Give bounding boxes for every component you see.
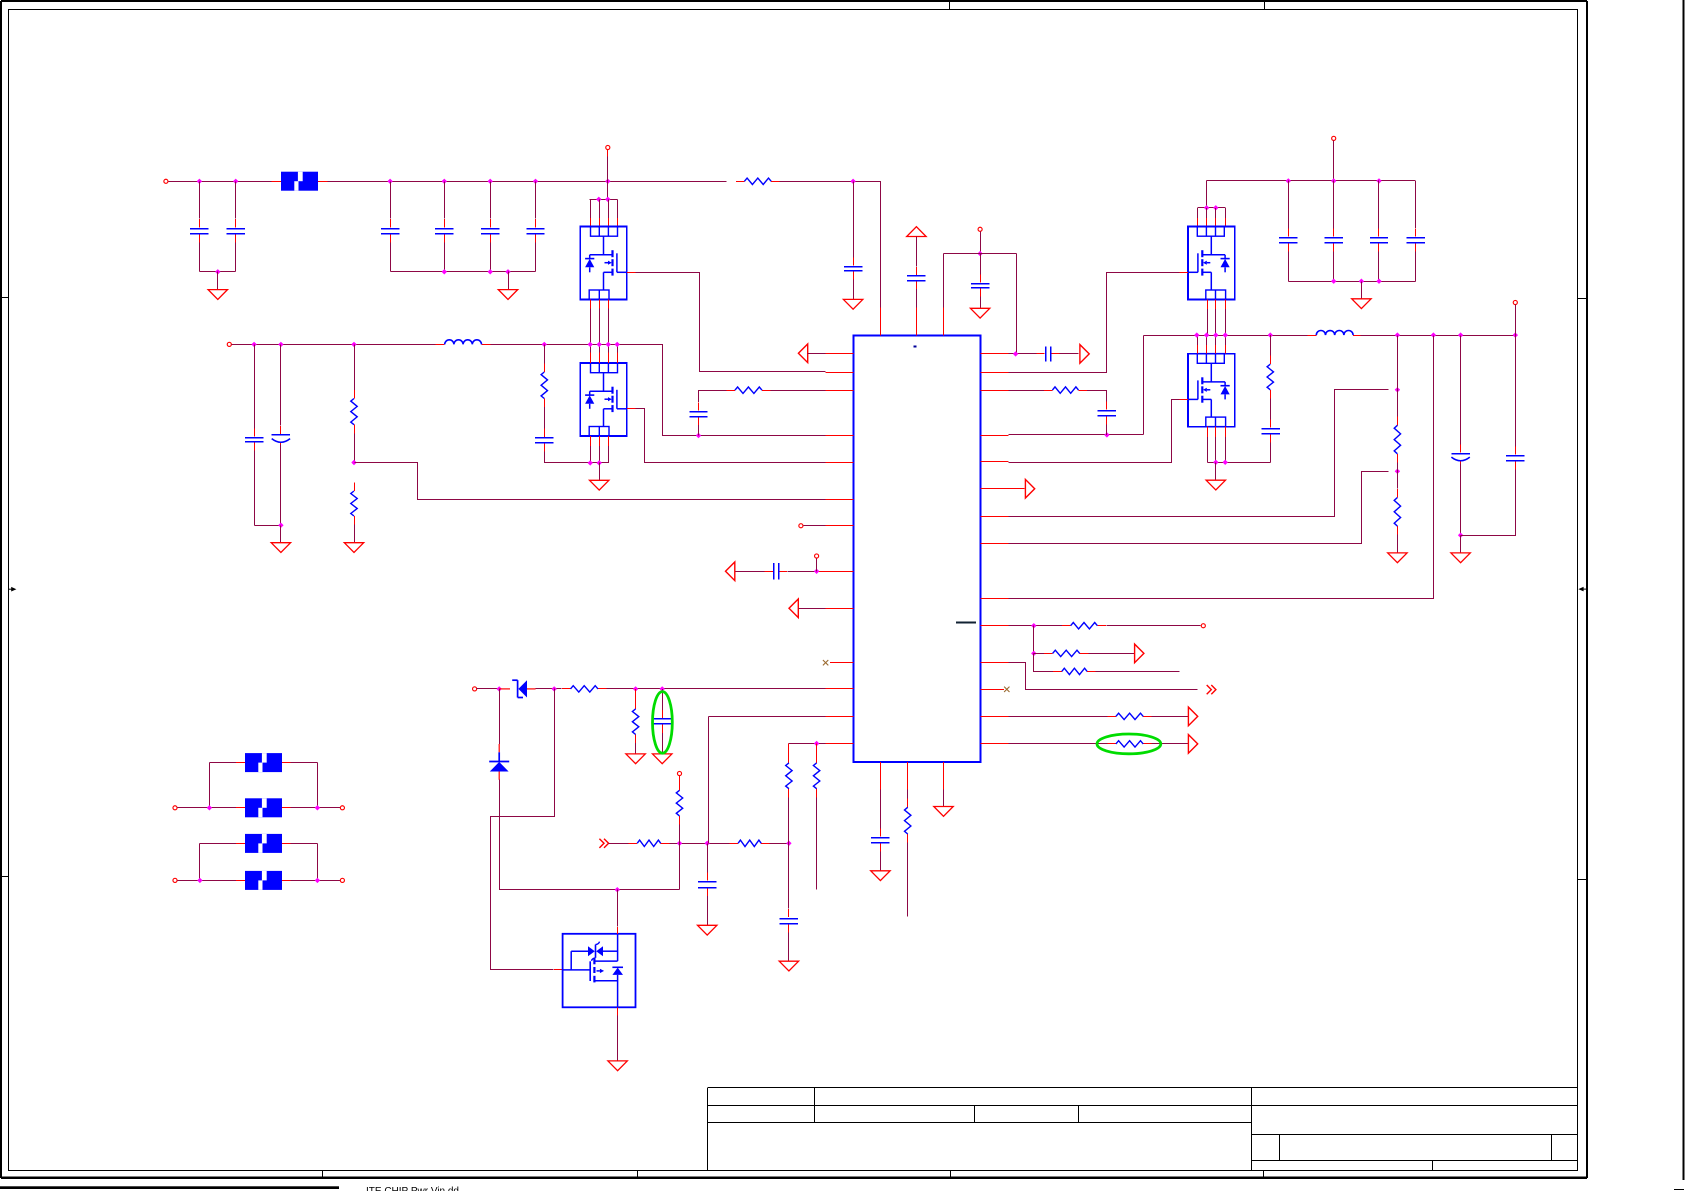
wire pin <box>1206 335 1208 345</box>
wire pin <box>1215 335 1217 345</box>
junction <box>1331 178 1336 183</box>
IC pin <box>981 516 1009 518</box>
junction <box>1013 351 1018 356</box>
wire cap leg <box>1288 181 1290 229</box>
wire Q2 source net <box>545 462 609 464</box>
junction <box>1268 332 1273 337</box>
wire <box>1016 254 1018 354</box>
wire <box>544 344 546 363</box>
wire <box>1270 399 1272 420</box>
resistor R7 <box>635 700 637 709</box>
transistor Q1 <box>580 227 627 300</box>
port arrow (left) <box>726 562 735 581</box>
junction <box>605 179 610 184</box>
capacitor C15 <box>662 710 664 718</box>
wire <box>907 790 909 799</box>
wire <box>1460 336 1462 445</box>
IC pin <box>826 462 854 464</box>
junction <box>596 197 601 202</box>
wire VOUT bus2 <box>491 345 826 436</box>
ground <box>1352 299 1371 309</box>
svg-text:ITE CHIP Pwr Vin dd: ITE CHIP Pwr Vin dd <box>366 1186 459 1191</box>
terminal P14 <box>1201 624 1205 628</box>
IC pin <box>826 688 854 690</box>
ground <box>608 1061 627 1071</box>
port arrow (right) <box>1080 345 1089 364</box>
wire gate bus <box>590 199 618 201</box>
junction <box>351 342 356 347</box>
wire cap leg <box>390 243 392 272</box>
wire <box>707 844 709 873</box>
wire <box>980 232 982 254</box>
wire <box>1152 716 1189 718</box>
wire <box>607 150 609 157</box>
wire <box>291 807 341 809</box>
wire <box>1107 625 1201 627</box>
port arrow (left) <box>798 344 807 363</box>
wire <box>679 825 681 844</box>
wire cap leg <box>254 451 256 526</box>
wire pin <box>608 300 610 309</box>
IC pin <box>981 461 1009 463</box>
IC pin <box>880 308 882 336</box>
wire cap leg <box>444 182 446 219</box>
wire gate bus <box>1198 207 1226 209</box>
wire VIN <box>169 181 281 183</box>
junction <box>1223 460 1228 465</box>
wire <box>635 689 637 700</box>
no-connect X <box>823 660 828 665</box>
wire pin <box>599 300 601 309</box>
IC pin <box>826 743 854 745</box>
wire <box>1143 336 1145 435</box>
capacitor C <box>1288 228 1290 236</box>
wire <box>788 744 790 755</box>
junction <box>696 433 701 438</box>
ground <box>871 871 890 881</box>
wire cap leg <box>199 182 201 219</box>
wire cap leg <box>1288 252 1290 282</box>
wire <box>816 559 818 572</box>
wire pin <box>590 199 592 218</box>
junction <box>552 686 557 691</box>
ground <box>208 290 227 300</box>
junction <box>615 342 620 347</box>
frame zone tick right <box>1578 298 1587 300</box>
wire cap leg <box>235 182 237 219</box>
title block <box>708 1088 1578 1171</box>
wire <box>544 452 546 463</box>
wire <box>209 763 211 808</box>
wire pin <box>608 344 610 352</box>
wire gnd stub <box>599 463 601 481</box>
junction <box>850 179 855 184</box>
wire <box>1096 671 1180 673</box>
port arrow (right) <box>1188 707 1197 726</box>
frame zone tick bottom <box>950 1170 952 1178</box>
junction <box>597 460 602 465</box>
chevron port <box>599 839 604 848</box>
IC pin <box>981 716 1009 718</box>
wire pin <box>617 344 619 352</box>
junction <box>814 569 819 574</box>
ground <box>626 754 645 764</box>
capacitor C <box>199 219 201 227</box>
ground <box>970 308 989 318</box>
wire pin <box>617 199 619 218</box>
wire <box>609 843 629 845</box>
wire gnd stub <box>1215 463 1217 481</box>
frame zone tick bottom <box>1263 1170 1265 1178</box>
junction <box>588 460 593 465</box>
IC pin <box>981 353 1009 355</box>
capacitor C7 <box>853 257 855 265</box>
wire <box>880 852 882 871</box>
IC pin <box>981 435 1009 437</box>
junction <box>1431 332 1436 337</box>
wire cap leg <box>280 345 282 426</box>
wire <box>199 844 201 881</box>
wire pin <box>590 344 592 352</box>
wire <box>617 1007 619 1015</box>
fuse F5 <box>245 871 282 890</box>
wire cap leg <box>444 243 446 272</box>
IC pin <box>826 372 854 374</box>
ground <box>698 925 717 935</box>
wire <box>354 525 356 543</box>
wire cap leg <box>490 243 492 272</box>
wire <box>1009 743 1108 745</box>
wire <box>210 762 237 764</box>
wire <box>1106 424 1108 435</box>
ground <box>344 543 363 553</box>
junction <box>1194 332 1199 337</box>
wire <box>1270 442 1272 462</box>
wire <box>679 844 681 890</box>
junction <box>588 342 593 347</box>
junction <box>1213 205 1218 210</box>
junction <box>977 251 982 256</box>
IC pin <box>826 499 854 501</box>
junction <box>633 686 638 691</box>
junction <box>660 686 665 691</box>
wire Q2 gate <box>636 409 826 463</box>
wire gnd stub <box>853 280 855 300</box>
resistor R11 <box>629 843 638 845</box>
junction <box>197 179 202 184</box>
resistor R22 <box>1107 743 1116 745</box>
resistor R8 <box>788 754 790 763</box>
IC pin <box>981 543 1009 545</box>
wire <box>1009 353 1041 355</box>
terminal P9 <box>173 878 177 882</box>
terminal P4 <box>815 554 819 558</box>
wire <box>500 780 680 890</box>
power VCC <box>907 227 926 237</box>
wire <box>236 880 245 882</box>
wire pin <box>590 300 592 309</box>
junction <box>1395 332 1400 337</box>
capacitor C26 (polarized) <box>1460 444 1462 452</box>
port arrow (right) <box>1188 735 1197 754</box>
wire <box>788 933 790 962</box>
wire gnd stub <box>217 272 219 290</box>
resistor R18 <box>1062 625 1071 627</box>
junction <box>1395 387 1400 392</box>
wire <box>1180 399 1189 401</box>
inductor L2 <box>1307 335 1316 337</box>
wire <box>771 390 826 392</box>
transistor Q2 <box>580 363 627 436</box>
IC pin <box>981 689 1005 691</box>
resistor R16 <box>1397 417 1399 426</box>
junction <box>488 269 493 274</box>
wire <box>282 762 291 764</box>
ground <box>498 290 517 300</box>
wire pin <box>1206 208 1208 218</box>
wire cap leg <box>254 345 256 429</box>
wire <box>816 744 818 755</box>
wire <box>662 689 664 710</box>
wire <box>1515 305 1517 336</box>
wire SW bus <box>1144 335 1308 337</box>
wire <box>944 253 1017 255</box>
wire <box>1461 470 1516 536</box>
wire <box>1397 463 1399 489</box>
resistor R5 <box>726 390 735 392</box>
capacitor C16 <box>707 873 709 881</box>
junction <box>786 841 791 846</box>
wire pin <box>608 199 610 218</box>
wire SW bus2 <box>1361 335 1516 337</box>
wire cap leg <box>390 182 392 219</box>
wire <box>236 843 245 845</box>
wire <box>317 844 319 881</box>
wire boot <box>699 390 727 392</box>
capacitor C13 <box>698 402 700 410</box>
ground <box>934 807 953 817</box>
junction <box>315 805 320 810</box>
wire cap leg <box>535 243 537 272</box>
junction <box>1031 651 1036 656</box>
wire cap leg <box>199 243 201 272</box>
wire <box>788 571 817 573</box>
wire pin <box>1225 300 1227 310</box>
wire cap leg <box>853 182 855 258</box>
junction <box>197 878 202 883</box>
wire <box>799 608 826 610</box>
wire <box>1460 464 1462 536</box>
resistor R1 <box>736 181 745 183</box>
wire pin <box>1225 335 1227 345</box>
terminal P15 <box>606 145 610 149</box>
wire pin <box>1215 208 1217 218</box>
frame zone tick bottom <box>637 1170 639 1178</box>
ground <box>1388 553 1407 563</box>
terminal P7 <box>173 806 177 810</box>
wire VOUT bus <box>232 344 436 346</box>
resistor R21 <box>1107 716 1116 718</box>
wire <box>1397 336 1399 417</box>
wire <box>272 181 281 183</box>
IC pin <box>826 435 854 437</box>
wire <box>536 688 562 690</box>
capacitor C <box>535 219 537 227</box>
wire cap leg <box>235 243 237 272</box>
junction <box>606 342 611 347</box>
capacitor C18 <box>880 828 882 836</box>
wire cap leg <box>1415 252 1417 282</box>
inductor L1 <box>436 344 445 346</box>
wire pin <box>1207 300 1209 310</box>
wire <box>1270 335 1272 356</box>
junction <box>278 342 283 347</box>
wire <box>1089 653 1135 655</box>
wire pin <box>1215 300 1217 310</box>
wire <box>1034 654 1054 672</box>
chevron port <box>1207 685 1212 694</box>
IC pin <box>880 762 882 790</box>
wire <box>236 807 245 809</box>
port arrow (right) <box>1025 479 1034 498</box>
wire <box>282 843 291 845</box>
capacitor C8 <box>916 267 918 275</box>
IC pin <box>826 525 854 527</box>
wire <box>1397 535 1399 553</box>
wire <box>1009 663 1198 690</box>
junction <box>1031 623 1036 628</box>
capacitor C27 <box>1515 446 1517 454</box>
wire <box>1333 141 1335 181</box>
transistor Q3 <box>1188 227 1235 300</box>
resistor R4 <box>544 363 546 372</box>
IC pin <box>981 598 1009 600</box>
wire <box>1515 336 1517 447</box>
wire <box>916 289 918 308</box>
terminal P13 <box>1513 300 1517 304</box>
IC pin <box>830 662 853 664</box>
junction <box>705 841 710 846</box>
wire <box>178 880 237 882</box>
terminal P3 <box>799 524 803 528</box>
wire <box>1009 716 1108 718</box>
wire pin <box>1225 208 1227 218</box>
wire <box>178 807 237 809</box>
wire <box>635 743 637 754</box>
wire Q3 gate <box>1009 273 1180 373</box>
capacitor C24 <box>1106 402 1108 410</box>
junction <box>1395 469 1400 474</box>
wire cap rail <box>255 525 281 527</box>
junction <box>315 878 320 883</box>
wire <box>544 407 546 428</box>
IC pin <box>981 625 1009 627</box>
capacitor C <box>390 219 392 227</box>
ground <box>843 299 862 309</box>
wire pin <box>1197 208 1199 218</box>
frame center arrow left <box>9 587 17 592</box>
capacitor C <box>444 219 446 227</box>
junction <box>1213 332 1218 337</box>
highlight ellipse <box>653 692 673 754</box>
capacitor C14 <box>765 571 773 573</box>
wire gnd stub <box>1460 536 1462 553</box>
frame zone tick right <box>1578 879 1587 881</box>
wire cap rail <box>200 271 236 273</box>
port arrow (right) <box>1135 644 1144 663</box>
terminal P6 <box>677 771 681 775</box>
capacitor C <box>1415 228 1417 236</box>
wire cap leg <box>1378 181 1380 229</box>
capacitor C17 <box>788 909 790 917</box>
wire <box>980 254 982 275</box>
resistor R15 <box>1270 356 1272 365</box>
port arrow (left) <box>789 599 798 618</box>
wire <box>617 1016 619 1061</box>
wire <box>291 843 318 845</box>
wire <box>808 353 826 355</box>
resistor R14 <box>1044 390 1053 392</box>
terminal P2 <box>227 342 231 346</box>
IC pin <box>943 762 945 790</box>
page edge right <box>1683 0 1685 1180</box>
wire pin <box>1207 427 1209 437</box>
wire gnd stub <box>1361 282 1363 299</box>
wire <box>554 969 563 971</box>
wire <box>662 733 664 754</box>
wire Q4 source net <box>1208 462 1271 464</box>
wire <box>1033 626 1035 654</box>
wire <box>880 790 882 829</box>
wire pin <box>1225 427 1227 437</box>
wire <box>1180 272 1189 274</box>
junction <box>1458 332 1463 337</box>
junction <box>1213 460 1218 465</box>
junction <box>533 179 538 184</box>
wire to IC top <box>780 182 881 308</box>
resistor R9 <box>816 754 818 763</box>
junction <box>814 741 819 746</box>
IC pin <box>981 743 1009 745</box>
wire <box>354 433 356 462</box>
wire <box>943 790 945 807</box>
junction <box>278 523 283 528</box>
wire <box>499 689 501 744</box>
junction <box>233 179 238 184</box>
terminal P11 <box>978 227 982 231</box>
wire <box>477 688 500 690</box>
wire pin <box>1197 335 1199 345</box>
junction <box>207 805 212 810</box>
wire <box>318 181 327 183</box>
junction <box>488 179 493 184</box>
IC pin <box>981 390 1009 392</box>
terminal P12 <box>1332 136 1336 140</box>
wire <box>698 390 700 402</box>
terminal P10 <box>340 878 344 882</box>
IC U1 mark <box>914 346 917 348</box>
terminal P5 <box>473 687 477 691</box>
junction <box>1359 279 1364 284</box>
wire cap leg <box>490 182 492 219</box>
IC pin <box>826 608 854 610</box>
IC pin <box>981 372 1009 374</box>
ground <box>653 754 672 764</box>
capacitor C9 <box>980 274 982 282</box>
resistor R19 <box>1044 653 1053 655</box>
wire fb tap <box>355 463 826 500</box>
junction <box>387 179 392 184</box>
